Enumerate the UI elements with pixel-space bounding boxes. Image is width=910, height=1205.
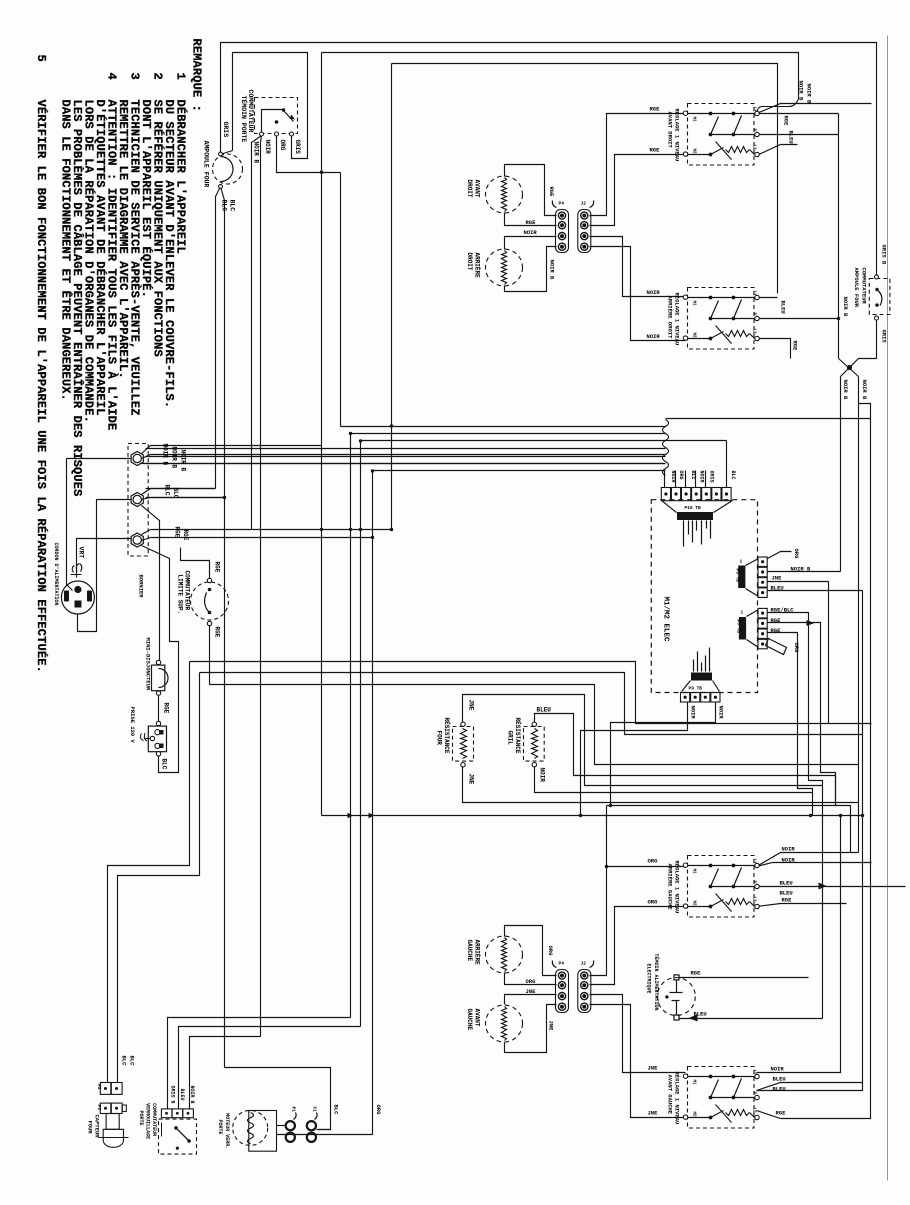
oven lamp AMPOULE FOUR bbox=[213, 154, 243, 184]
svg-text:RGE: RGE bbox=[650, 106, 661, 113]
svg-text:BLC: BLC bbox=[161, 759, 168, 770]
indicator lamp TEMOIN ALIMENTATION ELECTRIQUE bbox=[657, 978, 695, 1016]
svg-text:AVANT: AVANT bbox=[474, 1009, 481, 1027]
svg-text:NOIR: NOIR bbox=[647, 289, 661, 296]
svg-text:FOUR: FOUR bbox=[87, 1121, 94, 1135]
wire ORG to door motor bbox=[277, 1134, 373, 1136]
infinite switch front right bbox=[688, 104, 755, 166]
svg-text:GRIS: GRIS bbox=[294, 140, 301, 155]
svg-text:JNE: JNE bbox=[548, 1021, 555, 1032]
svg-text:NOIR B: NOIR B bbox=[861, 380, 868, 401]
svg-text:TÉMOIN ALIMENTATION: TÉMOIN ALIMENTATION bbox=[653, 954, 660, 1011]
wire vertical bus x=391 bbox=[391, 64, 393, 530]
svg-text:LIMITE SUP.: LIMITE SUP. bbox=[177, 575, 184, 615]
svg-text:3: 3 bbox=[128, 73, 142, 80]
svg-text:BLEU: BLEU bbox=[780, 890, 793, 897]
door lock switch COMMUTATEUR VERROUILLAGE PORTE bbox=[159, 1119, 197, 1154]
svg-text:PORTE: PORTE bbox=[217, 1120, 223, 1135]
limit switch COMMUTATEUR LIMITE SUP bbox=[191, 582, 229, 620]
svg-text:ORG: ORG bbox=[648, 858, 659, 865]
svg-text:BORNIER: BORNIER bbox=[138, 575, 145, 599]
burner AVANT GAUCHE bbox=[486, 1005, 523, 1042]
svg-text:FOUR: FOUR bbox=[436, 731, 443, 746]
svg-text:VERROUILLAGE: VERROUILLAGE bbox=[145, 1103, 151, 1139]
svg-text:NOIR: NOIR bbox=[264, 140, 271, 155]
svg-text:NOIR B: NOIR B bbox=[253, 142, 260, 164]
oven light switch COMMUTATEUR AMPOULE FOUR bbox=[869, 279, 890, 315]
svg-text:L1: L1 bbox=[752, 1070, 756, 1076]
svg-text:BLEU: BLEU bbox=[780, 301, 787, 314]
svg-text:COMMUTATEUR: COMMUTATEUR bbox=[861, 268, 868, 305]
power cord plug bbox=[61, 581, 94, 614]
svg-text:NOIR B: NOIR B bbox=[791, 566, 812, 573]
svg-text:BLC: BLC bbox=[172, 488, 179, 499]
svg-text:NOIR B: NOIR B bbox=[162, 444, 169, 466]
svg-text:NOIR B: NOIR B bbox=[798, 81, 805, 102]
mini breaker MINI-DISJONCTEUR bbox=[152, 665, 165, 691]
wire bus row B bbox=[200, 673, 863, 735]
svg-text:JNE: JNE bbox=[648, 1065, 659, 1072]
svg-text:P4: P4 bbox=[559, 961, 565, 967]
svg-text:BLC: BLC bbox=[221, 200, 228, 212]
svg-text:P2: P2 bbox=[96, 1084, 102, 1090]
svg-text:DANS LE FONCTIONNEMENT ET ÊTRE: DANS LE FONCTIONNEMENT ET ÊTRE DANGEREUX… bbox=[59, 100, 74, 401]
wire lower-right switch outputs bbox=[757, 853, 859, 867]
svg-text:GRIS: GRIS bbox=[222, 122, 229, 138]
svg-text:RÉGLAGE 1 NIVEAU: RÉGLAGE 1 NIVEAU bbox=[674, 293, 681, 346]
svg-text:J2: J2 bbox=[581, 201, 587, 207]
svg-text:COMMUTATEUR: COMMUTATEUR bbox=[247, 90, 254, 133]
wire oven sensor run 1 bbox=[108, 662, 190, 1083]
svg-text:ORG: ORG bbox=[375, 1105, 382, 1116]
svg-text:L1: L1 bbox=[752, 859, 756, 865]
svg-text:CAPTEUR: CAPTEUR bbox=[94, 1115, 101, 1139]
wire X junction crossover bbox=[841, 359, 877, 377]
board P6 ribbon band bbox=[766, 639, 787, 655]
svg-text:RGE: RGE bbox=[783, 116, 790, 127]
wire H805 run bbox=[607, 806, 851, 853]
svg-text:H2: H2 bbox=[692, 149, 696, 155]
svg-text:RGE: RGE bbox=[174, 527, 181, 538]
wire bake element feed bbox=[463, 695, 823, 786]
svg-text:RGE: RGE bbox=[163, 703, 170, 714]
svg-text:H2: H2 bbox=[692, 901, 696, 907]
broil element RESISTANCE GRIL bbox=[524, 727, 545, 762]
wire indicator lamp leads bbox=[680, 977, 809, 979]
svg-text:P5 TB: P5 TB bbox=[735, 569, 741, 583]
wire hooks at board connector entry bbox=[663, 420, 669, 476]
svg-text:RGE: RGE bbox=[214, 627, 221, 638]
svg-text:NOIR B: NOIR B bbox=[171, 447, 178, 469]
svg-text:RÉGLAGE 1 NIVEAU: RÉGLAGE 1 NIVEAU bbox=[674, 861, 681, 914]
connector pair top section bbox=[556, 210, 569, 253]
wire motor frame links bbox=[277, 1125, 285, 1127]
outlet ground symbol bbox=[150, 736, 154, 740]
svg-text:H2: H2 bbox=[692, 333, 696, 339]
svg-text:RÉGLAGE 1 NIVEAU: RÉGLAGE 1 NIVEAU bbox=[674, 1072, 681, 1125]
svg-text:PORTE: PORTE bbox=[138, 1111, 144, 1126]
svg-text:1: 1 bbox=[741, 610, 744, 616]
svg-text:JNE: JNE bbox=[468, 774, 475, 785]
svg-text:5: 5 bbox=[34, 55, 48, 62]
wire BLC to socket C1 bbox=[225, 1068, 331, 1130]
wire bus row A bbox=[190, 662, 872, 724]
svg-text:CORDON D'ALIMENTATION: CORDON D'ALIMENTATION bbox=[53, 543, 59, 606]
svg-text:NOIR: NOIR bbox=[698, 471, 704, 483]
wire NOIR door switch drops bbox=[252, 136, 262, 530]
svg-text:RGE: RGE bbox=[214, 562, 221, 573]
svg-text:ORG: ORG bbox=[547, 946, 554, 957]
terminal block BORNIER bbox=[128, 444, 148, 557]
wire X to NOIR vertical bbox=[840, 377, 842, 572]
svg-text:BLC: BLC bbox=[690, 471, 696, 480]
svg-text:L2: L2 bbox=[752, 1108, 756, 1114]
svg-text:M1/M2 ELEC: M1/M2 ELEC bbox=[662, 597, 670, 643]
wire right vertical x=870 lower bbox=[781, 377, 871, 1119]
svg-text:P10 TB: P10 TB bbox=[685, 505, 702, 511]
control board M1/M2 ELEC bbox=[651, 500, 757, 693]
svg-text:ÉLECTRIQUE: ÉLECTRIQUE bbox=[646, 964, 653, 994]
wire right pilot connections bbox=[757, 134, 839, 136]
svg-text:ORG: ORG bbox=[648, 899, 659, 906]
svg-text:BLEU: BLEU bbox=[773, 1086, 786, 1093]
svg-text:4: 4 bbox=[105, 73, 119, 80]
svg-text:AMPOULE FOUR: AMPOULE FOUR bbox=[203, 141, 210, 188]
wire bus row C bbox=[210, 685, 859, 765]
svg-text:RGE: RGE bbox=[776, 1110, 787, 1117]
wire BLC terminal-run bbox=[146, 488, 216, 490]
terminal top feed wires bbox=[142, 446, 322, 454]
svg-text:RGE: RGE bbox=[792, 341, 799, 352]
svg-text:H1: H1 bbox=[692, 1080, 696, 1086]
svg-text:L2: L2 bbox=[752, 329, 756, 335]
svg-text:VÉRIFIER LE BON FONCTIONNEMENT: VÉRIFIER LE BON FONCTIONNEMENT DE L'APPA… bbox=[34, 100, 49, 673]
svg-text:RGE: RGE bbox=[650, 147, 661, 154]
burner ARRIERE GAUCHE bbox=[486, 936, 523, 973]
svg-text:RGE: RGE bbox=[691, 970, 702, 977]
svg-text:BLC: BLC bbox=[129, 1056, 136, 1067]
svg-text:BLC: BLC bbox=[229, 200, 236, 212]
svg-text:RÉSISTANCE: RÉSISTANCE bbox=[514, 718, 521, 754]
wire top line to right side from board bbox=[666, 418, 871, 420]
door lock motor MOTEUR VERR PORTE bbox=[249, 1111, 277, 1152]
svg-text:RÉGLAGE 1 NIVEAU: RÉGLAGE 1 NIVEAU bbox=[674, 109, 681, 162]
svg-text:ORG: ORG bbox=[793, 643, 800, 654]
socket C1 bbox=[307, 1121, 316, 1130]
svg-text:H1: H1 bbox=[692, 869, 696, 875]
wire GRIS door-switch loop bbox=[233, 53, 308, 159]
svg-text:BLEU: BLEU bbox=[179, 1089, 185, 1101]
wire board lower NOIR drops bbox=[581, 703, 688, 816]
svg-text:VRT: VRT bbox=[78, 547, 85, 559]
plug neutral loop bbox=[78, 500, 132, 632]
svg-text:JNE: JNE bbox=[648, 1110, 659, 1117]
wire NOIR right vertical to X bbox=[838, 114, 840, 359]
svg-text:P9 TB: P9 TB bbox=[689, 686, 703, 692]
wire vertical bus x=321 bbox=[321, 53, 323, 816]
bake element RESISTANCE FOUR bbox=[453, 727, 474, 762]
wire run third nested bbox=[392, 64, 778, 294]
svg-text:BLC: BLC bbox=[121, 1056, 128, 1067]
svg-text:RGE/BLC: RGE/BLC bbox=[771, 607, 795, 614]
wire BLC lamp drops bbox=[216, 187, 221, 489]
svg-text:DROIT: DROIT bbox=[466, 253, 473, 271]
socket P1 bbox=[286, 1121, 295, 1130]
svg-text:COMMUTATEUR: COMMUTATEUR bbox=[184, 571, 191, 611]
wire ORG door switch drop bbox=[277, 136, 341, 173]
page edge line bbox=[887, 36, 889, 1181]
svg-text:RGE: RGE bbox=[782, 897, 793, 904]
svg-text:GRIS B: GRIS B bbox=[170, 1086, 176, 1104]
svg-text:AMPOULE FOUR: AMPOULE FOUR bbox=[853, 268, 860, 308]
svg-text:TÉMOIN PORTE: TÉMOIN PORTE bbox=[240, 96, 248, 143]
svg-text:RGE: RGE bbox=[771, 617, 782, 624]
svg-text:ARRIÈRE DROIT: ARRIÈRE DROIT bbox=[667, 296, 674, 340]
svg-text:NOIR B: NOIR B bbox=[842, 297, 849, 318]
wire ORG top run to right switch block bbox=[322, 53, 799, 100]
svg-text:1: 1 bbox=[740, 559, 743, 565]
wire limit switch to bus bbox=[209, 624, 211, 685]
board connector P5 right bbox=[758, 557, 767, 597]
burner AVANT DROIT bbox=[486, 176, 523, 213]
svg-text:BLEU: BLEU bbox=[788, 131, 795, 144]
terminal middle feed wires bbox=[142, 489, 216, 495]
svg-text:NOIR B: NOIR B bbox=[806, 84, 813, 105]
wire right drops junction bbox=[835, 776, 837, 806]
svg-text:NOIR B: NOIR B bbox=[189, 1086, 195, 1104]
svg-text:H2: H2 bbox=[692, 1112, 696, 1118]
board connector P10 top bbox=[661, 488, 731, 501]
wire door-lock harness bbox=[168, 1018, 351, 1109]
notes text block bbox=[34, 39, 204, 673]
svg-text:J2: J2 bbox=[581, 961, 587, 967]
wire right vertical x=862 bbox=[757, 591, 863, 1091]
svg-text:P3: P3 bbox=[96, 1105, 102, 1111]
svg-text:NOIR: NOIR bbox=[670, 471, 676, 483]
wire right vertical NOIR upper bbox=[757, 104, 872, 114]
svg-text:H1: H1 bbox=[692, 117, 696, 123]
svg-text:ORG: ORG bbox=[793, 549, 800, 560]
door lock switch connector pins bbox=[161, 1109, 172, 1118]
svg-text:ARRIÈRE: ARRIÈRE bbox=[474, 940, 481, 966]
svg-text:RGE: RGE bbox=[182, 530, 189, 541]
svg-text:PRISE 120 V: PRISE 120 V bbox=[129, 707, 136, 744]
svg-text:GRIL: GRIL bbox=[507, 731, 514, 746]
wire top section switch feeds bbox=[590, 114, 686, 216]
wire board P6 outputs bbox=[768, 613, 823, 1019]
main harness bundle to control board bbox=[340, 173, 342, 427]
svg-text:AVANT: AVANT bbox=[474, 180, 481, 198]
svg-text:BLC: BLC bbox=[333, 1105, 340, 1116]
wire H815 run bbox=[322, 815, 863, 817]
svg-text:ARRIÈRE: ARRIÈRE bbox=[474, 253, 481, 279]
svg-text:RGE: RGE bbox=[526, 219, 537, 226]
svg-text:NOIR: NOIR bbox=[524, 229, 538, 236]
infinite switch rear right bbox=[688, 288, 755, 350]
svg-text:BLC: BLC bbox=[730, 471, 736, 480]
svg-text:NOIR B: NOIR B bbox=[549, 260, 556, 281]
infinite switch rear left bbox=[688, 856, 755, 918]
svg-text:MINI-DISJONCTEUR: MINI-DISJONCTEUR bbox=[145, 638, 152, 692]
svg-text:BLEU: BLEU bbox=[773, 1076, 786, 1083]
svg-text:BLEU: BLEU bbox=[537, 707, 552, 714]
svg-text:JNE: JNE bbox=[468, 700, 475, 711]
wire RGE bottom-terminal drop bbox=[142, 546, 179, 773]
connector P2 bbox=[100, 1083, 111, 1095]
svg-text:RGE: RGE bbox=[548, 187, 555, 198]
svg-text:ORG: ORG bbox=[678, 471, 684, 480]
svg-text:NOIR: NOIR bbox=[782, 846, 796, 853]
connector P3 bbox=[100, 1103, 111, 1113]
infinite switch front left bbox=[688, 1067, 755, 1129]
wire GRIS outer run from oven lamp to oven-light switch bbox=[221, 43, 877, 277]
wire broil element return bbox=[535, 767, 813, 793]
terminal bottom feed wires bbox=[142, 530, 151, 535]
wire oven sensor run 2 bbox=[118, 673, 200, 1083]
svg-text:P4: P4 bbox=[559, 201, 565, 207]
svg-text:AVANT GAUCHE: AVANT GAUCHE bbox=[667, 1075, 674, 1115]
svg-text:JNE: JNE bbox=[772, 575, 783, 582]
svg-text:GRIS: GRIS bbox=[881, 330, 888, 344]
wire bottom section switch feeds bbox=[590, 806, 607, 976]
svg-text:JNE: JNE bbox=[526, 988, 537, 995]
svg-text:P1: P1 bbox=[291, 1107, 297, 1113]
svg-text:L2: L2 bbox=[752, 145, 756, 151]
svg-text:MOTEUR VERR.: MOTEUR VERR. bbox=[224, 1113, 230, 1149]
svg-text:ORG: ORG bbox=[279, 140, 286, 151]
svg-text:BLEU: BLEU bbox=[694, 1011, 707, 1018]
svg-text:L2: L2 bbox=[752, 897, 756, 903]
svg-text:L1: L1 bbox=[752, 291, 756, 297]
svg-text:REMARQUE :: REMARQUE : bbox=[190, 39, 204, 113]
oven sensor CAPTEUR FOUR bbox=[106, 1114, 119, 1130]
wire bottom section connector feeds bbox=[505, 926, 557, 976]
wire RGE to limit switch bbox=[181, 548, 210, 579]
svg-text:AVANT DROIT: AVANT DROIT bbox=[667, 112, 674, 149]
burner ARRIERE DROIT bbox=[486, 249, 523, 286]
board P10 trapezoid and hatch bbox=[662, 501, 677, 513]
svg-text:P6 TB: P6 TB bbox=[736, 620, 742, 634]
svg-text:L1: L1 bbox=[752, 107, 756, 113]
svg-text:ORG: ORG bbox=[526, 978, 537, 985]
board connector P9 bottom bbox=[681, 693, 721, 703]
svg-text:2: 2 bbox=[151, 73, 165, 80]
door switch COMMUTATEUR TEMOIN PORTE bbox=[255, 98, 298, 134]
board connector P6 right bbox=[758, 608, 767, 648]
svg-text:BLC: BLC bbox=[164, 485, 171, 496]
svg-text:BLEU: BLEU bbox=[771, 585, 784, 592]
svg-text:RÉSISTANCE: RÉSISTANCE bbox=[443, 718, 450, 754]
svg-text:RGE: RGE bbox=[771, 627, 782, 634]
wire top section connector feeds bbox=[505, 165, 557, 216]
svg-text:COMMUTATEUR: COMMUTATEUR bbox=[151, 1103, 157, 1136]
svg-text:NOIR B: NOIR B bbox=[180, 450, 187, 472]
svg-text:BLEU: BLEU bbox=[780, 880, 793, 887]
svg-text:NOIR: NOIR bbox=[782, 857, 796, 864]
svg-text:GRIS: GRIS bbox=[708, 471, 714, 483]
svg-text:NOIR: NOIR bbox=[647, 333, 661, 340]
svg-text:H1: H1 bbox=[692, 301, 696, 307]
svg-text:ARRIÈRE GAUCHE: ARRIÈRE GAUCHE bbox=[667, 864, 674, 911]
wire lower right switch connections bbox=[757, 297, 778, 299]
svg-text:C1: C1 bbox=[312, 1107, 318, 1113]
outlet PRISE 120V bbox=[148, 726, 166, 752]
svg-text:NOIR B: NOIR B bbox=[842, 380, 849, 401]
wire RGE terminal-run bbox=[151, 529, 392, 531]
svg-text:NOIR: NOIR bbox=[718, 706, 725, 720]
svg-text:GRIS B: GRIS B bbox=[881, 245, 888, 266]
ground VRT wire bbox=[77, 539, 132, 578]
svg-text:GAUCHE: GAUCHE bbox=[466, 940, 473, 962]
svg-text:1: 1 bbox=[174, 73, 188, 80]
wire board P5 outputs bbox=[768, 552, 792, 559]
svg-text:GAUCHE: GAUCHE bbox=[466, 1009, 473, 1031]
wire bake element return bbox=[463, 767, 859, 803]
wire oven-light switch bottom lead bbox=[876, 319, 878, 359]
wire broil element feed bbox=[535, 714, 836, 776]
svg-text:NOIR: NOIR bbox=[771, 1066, 785, 1073]
plug ground prong symbol bbox=[71, 564, 82, 575]
breaker-outlet link bbox=[158, 696, 160, 722]
connector pair bottom section bbox=[556, 970, 569, 1013]
wire NOIR long drop to lower section bbox=[858, 404, 860, 853]
svg-text:DROIT: DROIT bbox=[466, 180, 473, 198]
wire BLC middle-terminal drop bbox=[142, 506, 160, 663]
svg-text:NOIR: NOIR bbox=[539, 768, 546, 783]
svg-text:NOIR: NOIR bbox=[690, 706, 697, 720]
